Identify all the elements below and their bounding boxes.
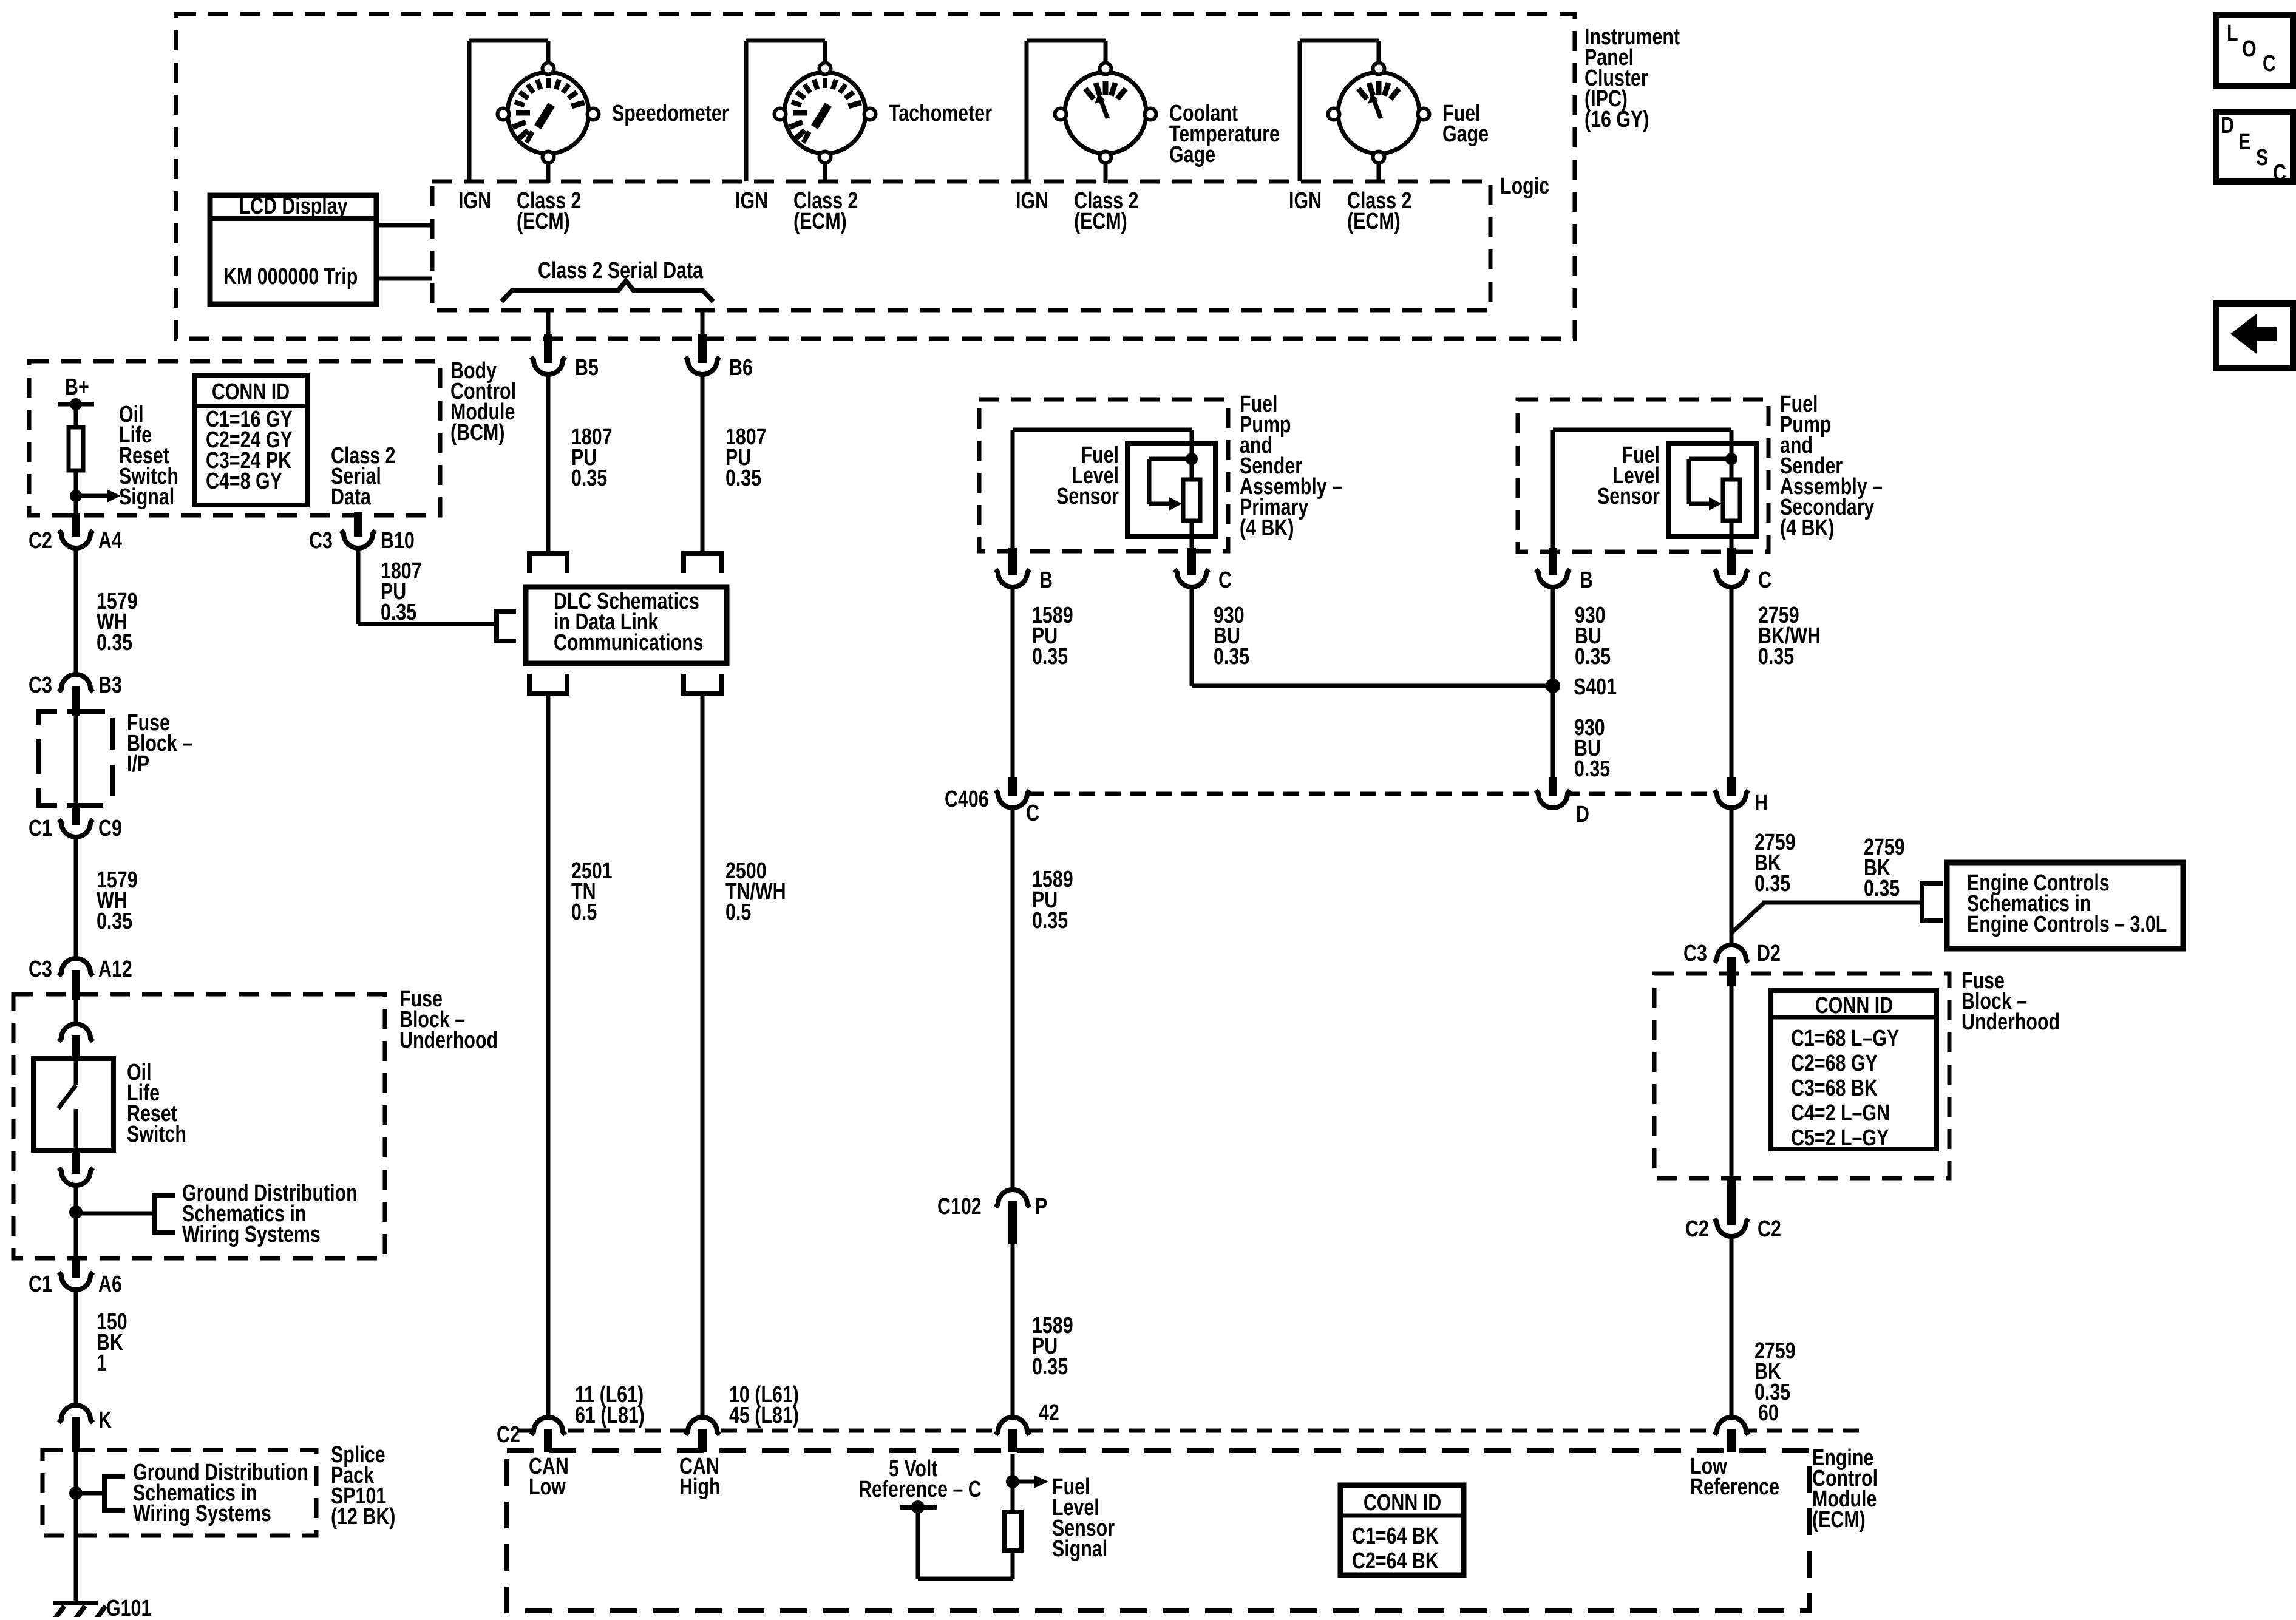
wire 150 BK <box>74 1290 78 1405</box>
svg-text:CONN ID: CONN ID <box>212 379 290 405</box>
connector C102 P <box>998 1189 1027 1204</box>
DLC left bracket <box>497 612 516 641</box>
connector K <box>61 1405 90 1419</box>
connector B primary <box>998 573 1027 588</box>
svg-text:CANLow: CANLow <box>529 1454 569 1500</box>
svg-text:Speedometer: Speedometer <box>612 101 729 126</box>
connector B5 <box>534 361 563 375</box>
gauge Tachometer <box>775 63 876 163</box>
splice S401 <box>1546 679 1560 693</box>
svg-text:C3: C3 <box>29 673 52 698</box>
Fuel Level Sensor label primary <box>1056 442 1119 509</box>
fuel level sensor box secondary <box>1668 444 1756 537</box>
Fuel Level Sensor Signal label <box>1052 1474 1115 1562</box>
Logic dashed box <box>432 181 1490 310</box>
IGN wire for Speedometer <box>467 41 472 181</box>
wire 930 BU label primary <box>1214 603 1249 669</box>
ground distribution bracket 1 <box>76 1212 154 1216</box>
ECM pin 42 connector <box>998 1417 1027 1431</box>
svg-text:11 (L61)61 (L81): 11 (L61)61 (L81) <box>575 1382 645 1428</box>
svg-text:CANHigh: CANHigh <box>679 1454 721 1500</box>
Body Control Module dashed box <box>29 361 440 515</box>
Class 2 Serial Data label BCM <box>331 443 395 510</box>
wire through fuse block I/P <box>74 716 78 807</box>
wire 2759 BK to ECM 60 <box>1730 1237 1734 1418</box>
IGN / Class 2 labels for Fuel <box>1289 188 1322 214</box>
Low Reference label <box>1690 1454 1779 1500</box>
svg-text:D: D <box>2221 113 2234 138</box>
pin label 10 L61 45 L81 <box>729 1382 799 1428</box>
wire through splice pack <box>74 1452 78 1603</box>
pin label 11 L61 61 L81 <box>575 1382 645 1428</box>
oil life reset switch label <box>127 1060 186 1147</box>
svg-text:C3: C3 <box>309 528 333 554</box>
connector D <box>1538 794 1567 808</box>
wire Coolant to logic <box>1104 157 1108 183</box>
svg-text:S: S <box>2256 145 2268 171</box>
wire 1807 PU label B6 <box>725 424 767 491</box>
wire LCD to logic upper <box>376 223 432 228</box>
wire 5v ref loop <box>916 1507 920 1579</box>
svg-text:B+: B+ <box>65 374 89 400</box>
wire secondary C down to H <box>1730 588 1734 778</box>
svg-text:A6: A6 <box>98 1272 122 1297</box>
svg-text:C2: C2 <box>497 1422 520 1448</box>
Splice Pack dashed box <box>42 1450 316 1536</box>
CONN ID box ECM <box>1340 1485 1464 1575</box>
svg-text:KM 000000 Trip: KM 000000 Trip <box>223 264 358 290</box>
sensor resistor primary <box>1183 480 1200 521</box>
oil life reset switch symbol <box>74 1061 78 1085</box>
connector B secondary <box>1538 573 1567 588</box>
gauge Fuel Gage <box>1328 63 1430 163</box>
DLC staple top B6 <box>684 554 721 573</box>
wire 1807 PU from B10 <box>356 549 361 624</box>
connector C1 A6 <box>61 1276 90 1290</box>
svg-text:C1: C1 <box>29 1272 52 1297</box>
junction dot ground ref left <box>69 1205 83 1219</box>
svg-text:P: P <box>1035 1194 1047 1219</box>
sensor resistor secondary <box>1723 480 1740 521</box>
svg-text:C9: C9 <box>98 816 122 841</box>
ECM label <box>1812 1445 1878 1533</box>
svg-text:B: B <box>1580 568 1593 593</box>
Fuel Pump and Sender Assembly Secondary dashed box <box>1518 399 1768 552</box>
wire inside primary assembly <box>1011 430 1015 551</box>
Fuel Level Sensor label secondary <box>1597 442 1660 509</box>
connector C406 C <box>998 794 1027 808</box>
wire 2759 BK label branch <box>1864 835 1905 901</box>
svg-text:CONN ID: CONN ID <box>1815 993 1893 1018</box>
svg-text:A12: A12 <box>98 957 132 982</box>
connector C3 B3 <box>61 674 90 688</box>
gauge name labels <box>612 101 729 126</box>
svg-text:CONN ID: CONN ID <box>1364 1490 1441 1516</box>
wire 930 BU label below S401 <box>1574 715 1610 782</box>
svg-text:C: C <box>1218 568 1232 593</box>
DLC staple bottom left <box>529 674 567 693</box>
wire 2759 BK/WH label <box>1758 603 1821 669</box>
Fuse Block Underhood left dashed box <box>13 994 385 1258</box>
Engine Controls Schematics box <box>1947 863 2183 949</box>
junction dot fuel level sensor signal <box>1006 1475 1019 1488</box>
ECM connector dashed line <box>517 1429 1859 1433</box>
svg-text:D2: D2 <box>1757 941 1781 966</box>
svg-text:C: C <box>2273 160 2286 186</box>
connector C3 B10 <box>344 534 373 549</box>
wire pin42 to resistor <box>1011 1454 1015 1512</box>
brace under Class 2 Serial Data <box>501 281 713 302</box>
svg-text:C1: C1 <box>29 816 52 841</box>
svg-text:L: L <box>2227 21 2238 46</box>
svg-text:G101: G101 <box>106 1596 151 1617</box>
svg-text:C: C <box>2263 51 2276 76</box>
ECM pin 60 connector <box>1717 1417 1746 1431</box>
switch top connector <box>61 1023 90 1038</box>
connector C2 C2 <box>1717 1222 1746 1237</box>
svg-text:O: O <box>2242 36 2257 62</box>
gauge Coolant Temperature Gage <box>1055 63 1156 163</box>
wire resistor down <box>74 470 78 517</box>
svg-text:K: K <box>98 1408 112 1433</box>
svg-text:60: 60 <box>1758 1400 1779 1426</box>
wire 1579 WH upper <box>74 549 78 680</box>
IGN wire for Fuel <box>1298 41 1302 181</box>
B+ terminal <box>58 402 94 407</box>
connector C primary <box>1177 573 1206 588</box>
Ground Distribution label 1 <box>182 1181 358 1247</box>
IGN / Class 2 labels for Tachometer <box>735 188 768 214</box>
wire through fuse block right <box>1730 986 1734 1180</box>
svg-text:B: B <box>1039 568 1053 593</box>
wire Fuel to logic <box>1377 157 1381 183</box>
ground distribution bracket 2 <box>76 1491 104 1496</box>
wire inside secondary assembly <box>1551 430 1555 551</box>
CONN ID box BCM <box>194 375 307 505</box>
wire 1589 PU from C102 to ECM 42 <box>1011 1244 1015 1418</box>
wire 1579 WH lower <box>74 838 78 958</box>
Fuse Block Underhood label right <box>1961 968 2060 1035</box>
Engine Control Module dashed box <box>507 1451 1809 1611</box>
sensor junction dot primary <box>1186 453 1198 465</box>
svg-text:Reference – C: Reference – C <box>858 1477 982 1502</box>
Class 2 Serial Data label <box>538 258 704 283</box>
svg-text:B10: B10 <box>381 528 415 554</box>
secondary assembly label <box>1780 391 1883 541</box>
Oil Life Reset Switch box <box>33 1059 114 1150</box>
svg-text:C3: C3 <box>1683 941 1707 966</box>
ECM pin CAN Low connector <box>534 1417 563 1431</box>
svg-text:A4: A4 <box>98 528 122 554</box>
svg-text:10 (L61)45 (L81): 10 (L61)45 (L81) <box>729 1382 799 1428</box>
IGN wire for Coolant <box>1025 41 1029 181</box>
wire LCD to logic lower <box>376 277 432 281</box>
wire B+ to resistor <box>74 404 78 427</box>
svg-text:IGN: IGN <box>735 188 768 214</box>
Splice Pack SP101 label <box>331 1442 395 1530</box>
LOC legend box <box>2216 15 2293 86</box>
svg-text:C2: C2 <box>1685 1216 1709 1242</box>
5 Volt Reference label <box>889 1456 938 1482</box>
resistor oil life reset switch signal <box>69 427 83 470</box>
gauge Speedometer <box>498 63 599 163</box>
back arrow box <box>2216 303 2293 368</box>
primary assembly label <box>1240 391 1342 541</box>
svg-text:C102: C102 <box>937 1194 982 1219</box>
wire 930 BU label secondary <box>1575 603 1611 669</box>
Logic label <box>1500 174 1549 199</box>
switch bottom connector <box>61 1171 90 1186</box>
svg-text:Class 2 Serial Data: Class 2 Serial Data <box>538 258 704 283</box>
sensor wire down secondary <box>1730 521 1734 551</box>
wire primary B down to C406 <box>1011 588 1015 778</box>
wire CAN High down <box>701 693 705 1418</box>
DLC staple top B5 <box>529 554 567 573</box>
sensor wiper loop primary <box>1149 457 1192 461</box>
arrow fuel level sensor signal <box>1013 1480 1034 1484</box>
C2 label ECM <box>497 1422 520 1448</box>
wire B6 down to DLC <box>701 310 705 336</box>
connector B6 <box>688 361 717 375</box>
wire primary C to S401 <box>1190 588 1194 686</box>
svg-text:C1=64 BKC2=64 BK: C1=64 BKC2=64 BK <box>1352 1523 1439 1574</box>
connector C2 A4 <box>61 534 90 549</box>
svg-text:D: D <box>1576 802 1589 827</box>
svg-text:IGN: IGN <box>458 188 491 214</box>
5 volt reference terminal <box>900 1505 937 1510</box>
sensor wire down primary <box>1190 521 1194 551</box>
DESC legend box <box>2216 112 2293 181</box>
svg-text:B3: B3 <box>98 673 122 698</box>
Fuse Block I/P dashed box <box>38 711 57 725</box>
IPC label <box>1584 24 1680 132</box>
wire 1589 PU from C406 to C102 <box>1011 808 1015 1189</box>
wire switch to ground ref <box>74 1186 78 1260</box>
wire 1589 PU label primary <box>1032 603 1073 669</box>
svg-text:B5: B5 <box>575 355 599 381</box>
LCD Display box <box>210 195 376 304</box>
wire 2759 BK from H down <box>1730 808 1734 946</box>
svg-text:C: C <box>1026 801 1039 826</box>
connector C1 C9 <box>61 823 90 838</box>
connector C3 D2 <box>1717 944 1746 959</box>
wire CAN Low down <box>546 693 551 1418</box>
engine controls bracket <box>1922 883 1943 921</box>
svg-text:Tachometer: Tachometer <box>889 101 992 126</box>
IGN wire for Tachometer <box>744 41 749 181</box>
sensor junction dot secondary <box>1725 453 1737 465</box>
svg-text:LCD Display: LCD Display <box>239 194 347 219</box>
svg-text:H: H <box>1754 790 1768 816</box>
junction dot splice pack <box>69 1486 83 1500</box>
svg-text:IGN: IGN <box>1289 188 1322 214</box>
IGN / Class 2 labels for Speedometer <box>458 188 491 214</box>
Fuel Pump and Sender Assembly Primary dashed box <box>979 399 1228 551</box>
connector C secondary <box>1717 573 1746 588</box>
svg-text:C3: C3 <box>29 957 52 982</box>
Fuse Block I/P label <box>127 710 192 777</box>
CAN Low label <box>529 1454 569 1500</box>
ground G101 symbol <box>53 1601 98 1605</box>
CAN High label <box>679 1454 721 1500</box>
svg-text:Logic: Logic <box>1500 174 1549 199</box>
DLC Schematics box <box>526 587 727 663</box>
Fuse Block Underhood label left <box>399 986 498 1053</box>
svg-text:IGN: IGN <box>1016 188 1048 214</box>
branch diagonal to engine controls <box>1731 903 1764 933</box>
wire secondary B to S401 and down <box>1551 588 1555 778</box>
svg-text:C2: C2 <box>1758 1216 1781 1242</box>
connector C3 A12 <box>61 958 90 972</box>
arrow oil life reset switch signal <box>76 494 107 498</box>
BCM label <box>450 358 516 446</box>
Fuse Block Underhood right dashed box <box>1654 974 1949 1178</box>
IGN / Class 2 labels for Coolant <box>1016 188 1048 214</box>
ECM pin CAN High connector <box>688 1417 717 1431</box>
Instrument Panel Cluster (IPC) dashed box <box>176 14 1575 339</box>
svg-text:C406: C406 <box>945 787 989 812</box>
CONN ID box fuse block right <box>1771 991 1937 1149</box>
fuel level sensor box primary <box>1127 444 1215 537</box>
svg-text:C: C <box>1758 568 1771 593</box>
svg-text:C2: C2 <box>29 528 52 554</box>
connector H <box>1717 794 1746 808</box>
Oil Life Reset Switch Signal label <box>119 402 178 510</box>
sensor wiper loop secondary <box>1689 457 1731 461</box>
wire 1807 PU label B5 <box>571 424 613 491</box>
wire Speedometer to logic <box>546 157 551 183</box>
ECM internal resistor <box>1004 1512 1021 1550</box>
svg-text:B6: B6 <box>729 355 753 381</box>
junction dot oil life signal <box>70 490 82 502</box>
svg-text:C1=16 GYC2=24 GYC3=24 PKC4=8 G: C1=16 GYC2=24 GYC3=24 PKC4=8 GY <box>206 407 293 494</box>
wire B5 down to DLC <box>546 310 551 336</box>
Ground Distribution label 2 <box>133 1460 308 1527</box>
C406 connector dashed line <box>1028 792 1714 796</box>
B+ label <box>65 374 89 400</box>
svg-text:E: E <box>2238 129 2250 155</box>
wire Tachometer to logic <box>823 157 827 183</box>
DLC staple bottom right <box>684 674 721 693</box>
svg-text:S401: S401 <box>1574 674 1617 700</box>
wire A12 to switch connector <box>74 1000 78 1023</box>
svg-text:42: 42 <box>1039 1400 1059 1426</box>
